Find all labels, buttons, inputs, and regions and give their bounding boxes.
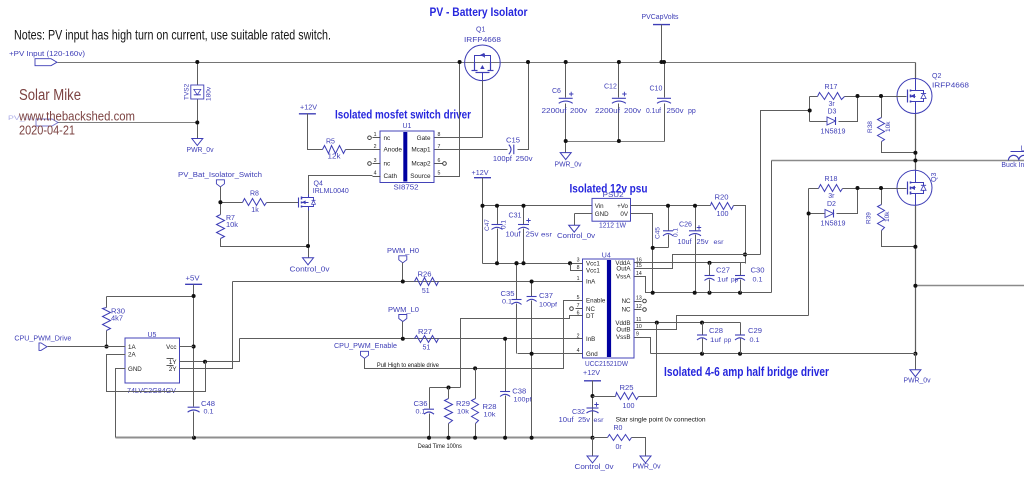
- svg-text:D2: D2: [827, 201, 836, 208]
- svg-text:C31: C31: [509, 213, 522, 220]
- svg-text:+12V: +12V: [300, 105, 317, 112]
- svg-text:pp: pp: [724, 337, 732, 344]
- svg-text:InB: InB: [586, 336, 595, 343]
- svg-text:R0: R0: [614, 425, 623, 432]
- svg-text:Q3: Q3: [931, 173, 938, 182]
- svg-text:10uf: 10uf: [559, 417, 574, 424]
- svg-text:15: 15: [636, 263, 642, 269]
- svg-text:Vcc: Vcc: [166, 344, 176, 351]
- svg-text:4: 4: [577, 348, 580, 354]
- svg-text:SI8752: SI8752: [394, 184, 419, 191]
- svg-text:esr: esr: [714, 239, 725, 246]
- svg-text:Control_0v: Control_0v: [290, 267, 331, 274]
- svg-text:3r: 3r: [828, 193, 835, 200]
- svg-text:TVS2: TVS2: [184, 83, 191, 100]
- svg-text:Buck In: Buck In: [1001, 162, 1024, 169]
- svg-text:3: 3: [374, 158, 377, 164]
- svg-text:100: 100: [717, 211, 729, 218]
- svg-text:0.1: 0.1: [750, 337, 760, 344]
- svg-text:C38: C38: [512, 389, 526, 396]
- svg-text:PWR_0v: PWR_0v: [904, 378, 931, 385]
- svg-text:Isolated 4-6 amp half bridge d: Isolated 4-6 amp half bridge driver: [664, 365, 829, 379]
- svg-text:Solar Mike: Solar Mike: [19, 87, 81, 104]
- svg-text:C26: C26: [679, 222, 692, 229]
- svg-text:C48: C48: [201, 401, 215, 408]
- svg-text:7: 7: [438, 144, 441, 150]
- svg-text:12: 12: [636, 304, 642, 310]
- svg-text:4k7: 4k7: [111, 316, 123, 323]
- svg-text:PV - Battery Isolator: PV - Battery Isolator: [430, 5, 528, 19]
- svg-text:13: 13: [636, 296, 642, 302]
- svg-text:2A: 2A: [128, 352, 136, 359]
- svg-text:Pull High to enable drive: Pull High to enable drive: [377, 362, 439, 369]
- svg-text:8: 8: [577, 265, 580, 271]
- svg-text:0.1: 0.1: [204, 408, 214, 415]
- svg-text:Q2: Q2: [932, 73, 941, 80]
- svg-text:C27: C27: [716, 268, 730, 275]
- svg-text:1212 1W: 1212 1W: [599, 223, 626, 230]
- svg-text:DT: DT: [586, 313, 594, 320]
- svg-text:2200uf: 2200uf: [542, 108, 567, 115]
- svg-text:+12V: +12V: [583, 370, 600, 377]
- svg-text:+5V: +5V: [186, 275, 200, 282]
- svg-text:C32: C32: [572, 409, 585, 416]
- svg-text:C35: C35: [501, 291, 515, 298]
- svg-text:R7: R7: [226, 215, 235, 222]
- svg-text:1A: 1A: [128, 344, 136, 351]
- svg-text:esr: esr: [594, 417, 605, 424]
- svg-text:0r: 0r: [616, 444, 623, 451]
- svg-text:Isolated mosfet switch driver: Isolated mosfet switch driver: [335, 108, 471, 122]
- svg-text:R27: R27: [418, 329, 432, 336]
- svg-text:+12V: +12V: [472, 170, 489, 177]
- svg-text:2020-04-21: 2020-04-21: [19, 122, 75, 137]
- svg-text:R20: R20: [715, 195, 729, 202]
- svg-text:nc: nc: [384, 161, 392, 168]
- svg-text:Mcap1: Mcap1: [411, 147, 431, 154]
- svg-text:C10: C10: [650, 86, 663, 93]
- svg-text:Enable: Enable: [586, 298, 606, 305]
- svg-text:C29: C29: [748, 328, 762, 335]
- svg-text:7: 7: [577, 303, 580, 309]
- svg-text:51: 51: [422, 288, 430, 295]
- svg-text:0.1: 0.1: [502, 299, 512, 306]
- svg-text:PVCapVolts: PVCapVolts: [642, 14, 679, 21]
- svg-text:250v: 250v: [516, 156, 534, 163]
- svg-text:1uf: 1uf: [710, 337, 721, 344]
- svg-text:10: 10: [636, 324, 642, 330]
- svg-text:GND: GND: [595, 211, 609, 218]
- svg-text:1: 1: [374, 132, 377, 138]
- svg-text:CPU_PWM_Enable: CPU_PWM_Enable: [334, 343, 397, 350]
- svg-text:Control_0v: Control_0v: [575, 464, 615, 471]
- svg-text:PWR_0v: PWR_0v: [187, 147, 214, 154]
- svg-text:R25: R25: [620, 385, 634, 392]
- svg-text:GND: GND: [128, 366, 142, 373]
- svg-text:25v: 25v: [526, 232, 540, 239]
- svg-text:8: 8: [438, 132, 441, 138]
- svg-text:OutA: OutA: [616, 266, 631, 273]
- svg-text:NC: NC: [622, 298, 631, 305]
- svg-text:Vcc1: Vcc1: [586, 260, 600, 267]
- svg-text:R39: R39: [866, 212, 873, 224]
- svg-text:C6: C6: [552, 88, 561, 95]
- svg-text:R30: R30: [111, 309, 125, 316]
- svg-text:0.1uf: 0.1uf: [646, 108, 661, 115]
- svg-text:U4: U4: [602, 252, 611, 259]
- svg-text:InA: InA: [586, 279, 596, 286]
- svg-text:CPU_PWM_Drive: CPU_PWM_Drive: [14, 335, 71, 342]
- svg-text:Control_0v: Control_0v: [557, 233, 596, 240]
- svg-text:2200uf: 2200uf: [595, 108, 620, 115]
- svg-text:Q4: Q4: [314, 181, 323, 188]
- svg-text:5: 5: [577, 295, 580, 301]
- svg-text:11: 11: [636, 317, 641, 323]
- svg-text:U1: U1: [403, 123, 412, 130]
- svg-text:25v: 25v: [697, 239, 710, 246]
- svg-text:180v: 180v: [206, 86, 213, 101]
- svg-text:10k: 10k: [226, 222, 239, 229]
- svg-text:Mcap2: Mcap2: [411, 161, 431, 168]
- svg-text:Q1: Q1: [476, 27, 485, 34]
- svg-text:0.1: 0.1: [416, 409, 426, 416]
- svg-text:1Y: 1Y: [169, 359, 177, 366]
- svg-text:Vcc1: Vcc1: [586, 268, 600, 275]
- svg-text:L: L: [1021, 146, 1024, 153]
- svg-text:C47: C47: [484, 219, 491, 231]
- svg-text:PWR_0v: PWR_0v: [633, 464, 661, 471]
- svg-text:5: 5: [438, 171, 441, 177]
- svg-text:3: 3: [577, 258, 580, 264]
- svg-text:3r: 3r: [829, 101, 836, 108]
- svg-text:1N5819: 1N5819: [821, 220, 846, 227]
- svg-text:0.1: 0.1: [753, 277, 763, 284]
- svg-text:www.thebackshed.com: www.thebackshed.com: [18, 108, 135, 123]
- svg-text:U5: U5: [148, 332, 157, 339]
- svg-text:Source: Source: [410, 173, 431, 180]
- svg-text:R29: R29: [456, 401, 470, 408]
- svg-text:10uf: 10uf: [506, 232, 521, 239]
- svg-text:VssB: VssB: [616, 334, 630, 341]
- svg-text:10k: 10k: [484, 412, 497, 419]
- svg-text:250v: 250v: [667, 108, 685, 115]
- svg-text:51: 51: [423, 344, 431, 351]
- svg-text:R38: R38: [867, 121, 874, 133]
- svg-text:100: 100: [623, 403, 635, 410]
- svg-text:Cath: Cath: [384, 173, 398, 180]
- svg-text:R17: R17: [825, 84, 838, 91]
- svg-text:R26: R26: [418, 271, 432, 278]
- svg-text:C36: C36: [414, 401, 428, 408]
- svg-text:Gnd: Gnd: [586, 351, 598, 358]
- svg-text:Vin: Vin: [595, 203, 604, 210]
- svg-text:14: 14: [636, 271, 642, 277]
- svg-text:10uf: 10uf: [678, 239, 692, 246]
- svg-text:C37: C37: [539, 293, 553, 300]
- svg-text:PV_Bat_Isolator_Switch: PV_Bat_Isolator_Switch: [178, 172, 262, 179]
- svg-text:2: 2: [577, 333, 580, 339]
- svg-text:VssA: VssA: [616, 274, 631, 281]
- svg-text:D3: D3: [828, 109, 837, 116]
- svg-text:C45: C45: [655, 227, 662, 239]
- svg-text:100pf: 100pf: [493, 156, 512, 163]
- svg-text:Notes: PV input has high turn: Notes: PV input has high turn on current…: [14, 27, 331, 42]
- svg-text:10k: 10k: [884, 211, 891, 222]
- svg-text:R5: R5: [326, 139, 335, 146]
- svg-text:1N5819: 1N5819: [821, 128, 846, 135]
- svg-text:1uf: 1uf: [717, 277, 728, 284]
- svg-text:IRLML0040: IRLML0040: [313, 188, 349, 195]
- svg-text:12k: 12k: [328, 154, 342, 161]
- svg-text:PWM_H0: PWM_H0: [387, 248, 419, 255]
- svg-text:2: 2: [374, 144, 377, 150]
- svg-text:6: 6: [438, 158, 441, 164]
- svg-text:OutB: OutB: [616, 327, 630, 334]
- svg-text:200v: 200v: [624, 108, 642, 115]
- svg-text:0V: 0V: [620, 211, 628, 218]
- svg-text:PWR_0v: PWR_0v: [555, 162, 582, 169]
- svg-text:10k: 10k: [885, 121, 892, 132]
- svg-text:NC: NC: [622, 307, 631, 314]
- svg-text:UCC21521DW: UCC21521DW: [585, 361, 628, 368]
- svg-text:C28: C28: [709, 328, 723, 335]
- svg-text:6: 6: [577, 310, 580, 316]
- svg-text:Dead Time 100ns: Dead Time 100ns: [418, 443, 463, 450]
- svg-text:0.1: 0.1: [501, 220, 508, 229]
- svg-text:1k: 1k: [251, 207, 259, 214]
- svg-text:R8: R8: [250, 191, 259, 198]
- svg-text:9: 9: [636, 332, 639, 338]
- svg-text:nc: nc: [384, 135, 392, 142]
- svg-text:R28: R28: [483, 404, 497, 411]
- svg-text:IRFP4668: IRFP4668: [932, 83, 969, 90]
- svg-text:C12: C12: [604, 84, 617, 91]
- svg-text:200v: 200v: [570, 108, 588, 115]
- svg-text:10k: 10k: [457, 409, 470, 416]
- svg-text:esr: esr: [541, 232, 553, 239]
- svg-text:Gate: Gate: [417, 135, 431, 142]
- svg-text:100pf: 100pf: [539, 302, 557, 309]
- svg-text:C15: C15: [506, 138, 520, 145]
- svg-text:NC: NC: [586, 306, 595, 313]
- svg-text:C30: C30: [751, 268, 765, 275]
- svg-text:25v: 25v: [578, 417, 591, 424]
- svg-text:2Y: 2Y: [169, 366, 177, 373]
- svg-text:PWM_L0: PWM_L0: [388, 307, 419, 314]
- svg-text:+Vo: +Vo: [617, 203, 628, 210]
- svg-text:Anode: Anode: [384, 147, 403, 154]
- svg-text:0.1: 0.1: [673, 228, 680, 237]
- svg-text:100pf: 100pf: [514, 397, 532, 404]
- svg-text:1: 1: [577, 276, 580, 282]
- svg-text:4: 4: [374, 171, 377, 177]
- svg-text:PSU2: PSU2: [603, 192, 624, 199]
- svg-text:pp: pp: [688, 108, 696, 115]
- svg-text:Star single point 0v connectio: Star single point 0v connection: [616, 416, 706, 423]
- svg-text:IRFP4668: IRFP4668: [464, 37, 501, 44]
- svg-text:+PV Input (120-160v): +PV Input (120-160v): [9, 51, 85, 58]
- svg-text:R18: R18: [825, 176, 838, 183]
